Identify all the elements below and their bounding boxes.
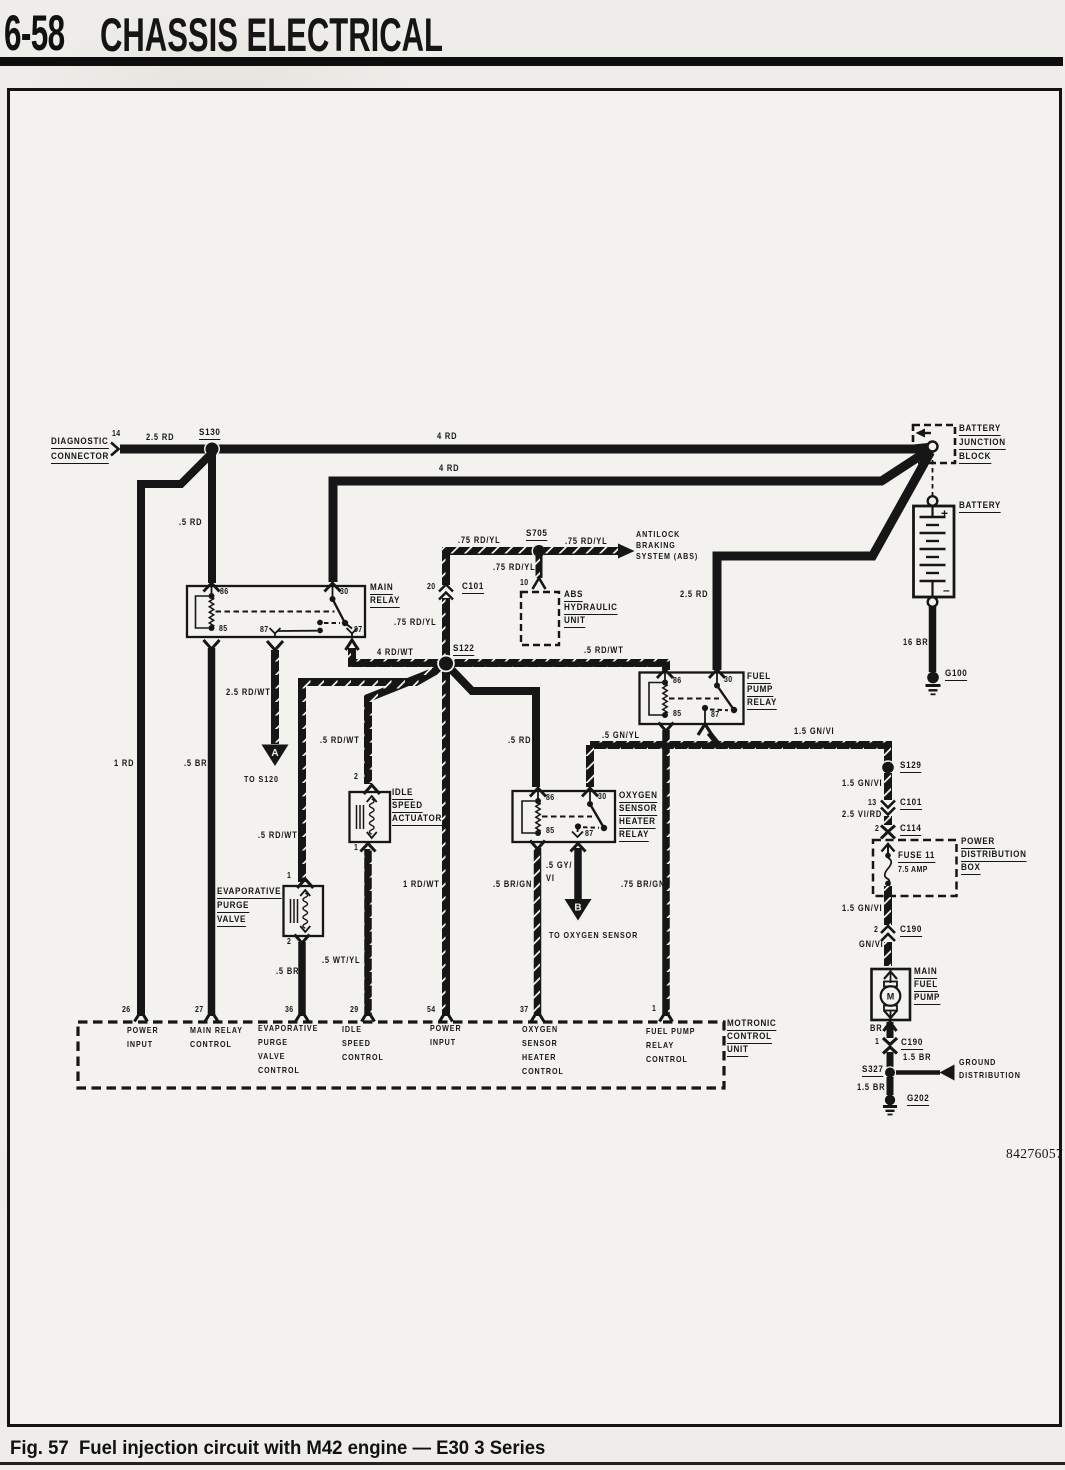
value .5 GN/YL [602,731,640,740]
value .5 RD/WT (to purge valve) [258,831,298,840]
wire .5 RD (S130 to main relay pin 86) [208,453,216,583]
heater relay pin 86 [546,794,555,802]
label main relay control line 2 [190,1040,232,1048]
page header title [100,7,443,62]
battery junction block arrow [916,429,926,438]
fork at Motronic pin 37 [531,1011,544,1022]
connector label C101 (pin 13) [900,798,922,810]
arrowhead at main relay pin 85 [204,640,220,649]
label evaporative purge valve control line 4 [258,1066,300,1074]
heater relay pin 30 [598,793,607,801]
purge valve pin 1 [287,872,291,880]
wire jog fuel pump relay 87 to GN/YL run [709,733,718,744]
label power input (pin 54) [430,1024,462,1032]
value .5 BR (purge valve) [276,967,299,976]
node label S130 [199,428,221,440]
fuse 11 entry arrow inside power distribution box [882,844,895,852]
wire .75 RD/YL (node S122 up through C101 pin 20 to S705 corner) [446,551,534,659]
value 2.5 RD/WT [226,688,271,697]
label evaporative purge valve control line 2 [258,1038,288,1046]
label idle speed control [342,1025,362,1033]
Motronic pin 26 [122,1006,131,1014]
label oxygen sensor heater relay line 4 [619,830,649,842]
label main relay control [190,1026,243,1034]
label battery junction block line 3 [959,452,991,464]
fork at Motronic pin 27 [205,1011,218,1022]
value .5 RD (to heater relay) [508,736,531,745]
fuel pump relay pin 30 [724,676,733,684]
fuse 11 element squiggle [885,858,892,885]
label antilock braking system [636,530,680,538]
bottom rule [0,1462,1065,1465]
wire .5 WT/YL (idle speed actuator pin 1 to Motronic pin 29) [364,849,372,1016]
value 1.5 GN/VI (S129-C101) [842,779,882,788]
node label S705 [526,529,548,541]
ground G100 symbol [927,672,939,684]
label ABS hydraulic unit line 2 [564,603,618,615]
label oxygen sensor heater control line 3 [522,1053,556,1061]
C190 pin 1 [875,1038,879,1046]
label power distribution box [961,837,995,849]
label evaporative purge valve [217,887,281,899]
label idle speed actuator [392,788,413,800]
value GN/VI [859,940,884,949]
label power input (pin 54) line 2 [430,1038,456,1046]
wire .75 RD/YL (S705 down to ABS hydraulic unit pin 10) [536,556,543,578]
label diagnostic connector [51,437,108,449]
Motronic pin 37 [520,1006,529,1014]
fork at Motronic pin 29 [362,1011,375,1022]
label oxygen sensor heater relay line 3 [619,817,656,829]
C114 pin 2 [875,825,879,833]
node S130 junction [204,441,220,457]
C101 pin 20 [427,583,436,591]
wire BR (C190 pin 1 to S327) [887,1052,894,1068]
value 2.5 RD [146,433,174,442]
node S122 junction [437,655,455,673]
dashed link battery junction to battery [932,452,934,496]
wire 2.5 RD/WT (main relay pin 87 to triangle A) [271,650,279,744]
value .5 RD/WT (to idle speed actuator) [320,736,360,745]
evaporative purge valve [284,886,324,936]
label evaporative purge valve line 2 [217,901,249,913]
value 4 RD (second feed) [439,464,459,473]
label battery junction block line 2 [959,438,1006,450]
label evaporative purge valve line 3 [217,915,246,927]
wire 4 RD/WT (main relay pin 87 to node S122) [352,648,441,663]
battery junction block terminal [928,442,938,452]
wire .5 RD/WT (S122 to idle speed actuator pin 2) [368,668,443,784]
value .5 GY/VI line 2 [546,874,555,883]
label power distribution box line 3 [961,863,981,875]
ABS hydraulic unit (dashed) [521,592,559,645]
value .5 BR (main relay 85) [184,759,207,768]
wire GN/VI (C190 to main fuel pump) [884,942,892,966]
main relay pin 85 [219,625,228,633]
fork under main fuel pump [884,1022,897,1031]
wire 16 BR (battery to ground G100) [929,607,937,672]
value .75 RD/YL (C101 to S122) [394,618,437,627]
fuse 11 lead in [887,846,889,853]
label antilock braking system line 3 [636,552,698,560]
value 1.5 GN/VI (run) [794,727,834,736]
label power input (pin 26) [127,1026,159,1034]
fork at Motronic pin 1 [660,1011,673,1022]
value .5 GY/VI [546,861,572,870]
triangle reference B to oxygen sensor [565,899,592,921]
arrowhead at fuel pump relay pin 85 [659,723,674,732]
label idle speed control line 2 [342,1039,371,1047]
connector C101 pin 13 symbol [881,801,895,808]
heater relay pin 87 [585,830,594,838]
battery [914,506,955,597]
value 2.5 RD [680,590,708,599]
label diagnostic connector line 2 [51,452,109,464]
wire .75 BR/GN (fuel pump relay pin 85 to Motronic pin 1) [662,730,670,1016]
fuse 11 bottom contact dot [885,881,891,887]
C101 pin 13 [868,799,877,807]
wire 1.5 BR (S327 to ground G202) [887,1077,894,1095]
battery negative terminal [928,597,938,607]
node label S327 [862,1065,884,1077]
label main fuel pump [914,967,937,979]
Motronic pin 29 [350,1006,359,1014]
label evaporative purge valve control line 3 [258,1052,285,1060]
arrowhead from ground distribution [940,1065,955,1081]
label main fuel pump line 2 [914,980,938,992]
wire .5 BR (main relay pin 85 to Motronic pin 27) [208,648,216,1016]
label oxygen sensor heater relay line 2 [619,804,657,816]
label oxygen sensor heater control [522,1025,558,1033]
label motronic control unit line 2 [727,1032,772,1044]
label motronic control unit line 3 [727,1045,749,1057]
fork at Motronic pin 54 [440,1011,453,1022]
fork at Motronic pin 36 [296,1011,309,1022]
heater relay pin 85 [546,827,555,835]
connector C101 pin 20 symbol [440,585,452,598]
node S705 junction [532,544,547,559]
value 1.5 GN/VI (fuse-C190) [842,904,882,913]
wire .5 RD (S122 to oxygen sensor heater relay pin 86) [449,667,537,788]
Motronic pin 36 [285,1006,294,1014]
wire 1.5 GN/VI (fuse 11 to connector C190 pin 2) [884,886,892,925]
fuel pump relay pin 86 [673,677,682,685]
label power input line 2 [127,1040,153,1048]
cup at idle speed actuator pin 1 [361,844,376,852]
value 1 RD/WT [403,880,440,889]
label to oxygen sensor [549,931,638,939]
wire .5 BR/GN (oxygen sensor heater relay pin 85 to Motronic pin 37) [534,848,542,1016]
ground label G202 [907,1094,929,1106]
connector label C190 (pin 2) [900,925,922,937]
ground G202 symbol [885,1095,895,1105]
fuse 11 contact dot [885,853,891,859]
value .75 RD/YL (top) [458,536,501,545]
wire BR (main fuel pump to connector C190 pin 1) [887,1022,894,1038]
label antilock braking system line 2 [636,541,676,549]
fork at Motronic pin 26 [135,1011,148,1022]
value .5 RD (S130 branch) [179,518,202,527]
value 4 RD/WT [377,648,414,657]
wire 4 RD second feed (battery junction block to main relay pin 30) [333,450,929,582]
fork under fuel pump relay pin 87 [698,724,712,735]
value 1.5 BR (to G202) [857,1083,885,1092]
node label S122 [453,644,475,656]
label battery [959,501,1001,513]
wire .5 RD/WT (S122 to evaporative purge valve pin 1) [302,666,444,882]
main relay pin 86 [220,588,229,596]
svg-text:+: + [941,507,948,521]
arrowhead at oxygen sensor heater relay pin 85 [530,841,545,850]
arrowhead at main relay pin 87 middle [267,641,283,650]
label to S120 [244,775,279,783]
connector C190 pin 1 symbol [883,1038,897,1045]
label fuel pump relay line 2 [747,685,773,697]
svg-text:B: B [574,903,581,914]
wire 2.5 RD / 4 RD main feed (diagnostic connector to battery junction block) [120,448,928,450]
value 1.5 BR (to ground distribution) [903,1053,931,1062]
Motronic pin 54 [427,1006,436,1014]
wire .5 BR (evaporative purge valve pin 2 to Motronic pin 36) [298,942,306,1016]
connector C114 pin 2 symbol [881,826,895,839]
label oxygen sensor heater relay [619,791,658,803]
label fuel pump relay line 3 [747,698,777,710]
label main relay line 2 [370,596,400,608]
node label S129 [900,761,922,773]
cup at oxygen sensor heater relay pin 87 [571,844,586,852]
figure caption [10,1437,545,1460]
svg-text:–: – [943,583,950,597]
label evaporative purge valve control [258,1024,318,1032]
battery positive terminal [928,496,938,506]
arrowhead at evaporative purge valve pin 2 [295,935,310,944]
idle speed actuator pin 2 [354,773,358,781]
label oxygen sensor heater control line 2 [522,1039,558,1047]
wire .5 RD/WT (S122 to fuel pump relay pin 86) [451,663,666,670]
wire .75 RD/YL (S705 to antilock braking system) [544,547,619,555]
fuel pump relay pin 87 [711,711,720,719]
value BR [870,1024,883,1033]
label ABS hydraulic unit [564,590,583,602]
connector label C101 (pin 20) [462,582,484,594]
battery junction block (dashed) [913,425,955,463]
wire 2.5 VI/RD (C101 to connector C114 pin 2) [884,816,892,825]
value 2.5 VI/RD [842,810,882,819]
svg-text:A: A [271,748,278,759]
value .75 RD/YL (to pin 10) [493,563,536,572]
main relay pin 30 [340,588,349,596]
label ground distribution [959,1058,996,1066]
label idle speed control line 3 [342,1053,384,1061]
wire 2.5 RD (battery junction block to fuel pump relay pin 30) [717,452,931,670]
main relay K1 [187,586,365,637]
triangle reference A to S120 [262,745,289,767]
value 16 BR [903,638,928,647]
main relay pin 87 middle [260,626,269,634]
node S327 junction [884,1066,896,1078]
label fuel pump relay control [646,1027,695,1035]
wire 1 RD (S130 to Motronic pin 26) [141,451,214,1016]
label ABS hydraulic unit line 3 [564,616,586,628]
connector fork pin 14 (diagnostic connector) [111,443,119,456]
wire 1 RD/WT (S122 to Motronic pin 54) [442,670,450,1016]
connector label C190 (pin 1) [901,1038,923,1050]
label motronic control unit [727,1019,776,1031]
label fuse 11 [898,851,935,863]
power distribution box (dashed) [873,840,957,896]
ABS pin 10 [520,579,529,587]
Motronic pin 27 [195,1006,204,1014]
label fuel pump relay control line 2 [646,1041,674,1049]
wire 1.5 GN/VI (S129 to connector C101 pin 13) [884,773,892,800]
Motronic control unit (dashed) [78,1022,724,1088]
fuel pump relay pin 85 [673,710,682,718]
header rule bar [0,57,1063,66]
value .75 RD/YL (to ABS) [565,537,608,546]
label power distribution box line 2 [961,850,1027,862]
purge valve pin 2 [287,938,291,946]
main fuel pump [872,969,911,1020]
wire 1.5 BR (S327 to ground distribution) [896,1070,940,1075]
fork under main relay pin 87 right [346,640,359,650]
label fuel pump relay control line 3 [646,1055,688,1063]
label idle speed actuator line 3 [392,814,442,826]
svg-text:M: M [887,992,895,1002]
label ground distribution line 2 [959,1071,1021,1079]
value .75 BR/GN [621,880,665,889]
label fuel pump relay [747,672,771,684]
label main relay [370,583,393,595]
main relay pin 87 right [354,626,363,634]
document number [1006,1147,1063,1161]
value .5 BR/GN [493,880,532,889]
wire .5 GY/VI (oxygen sensor heater relay pin 87 to triangle B) [574,848,582,899]
wire .5 GN/YL / 1.5 GN/VI run (to S129 branch) [590,745,888,762]
pin 14 label [112,430,121,438]
value 7.5 AMP [898,866,928,874]
ground label G100 [945,669,967,681]
fuel pump relay K2 [640,673,744,725]
node S129 junction [881,760,896,775]
value 4 RD (top feed) [437,432,457,441]
connector label C114 [900,824,922,836]
Motronic pin 1 [652,1005,656,1013]
value .5 WT/YL [322,956,360,965]
label main fuel pump line 3 [914,993,940,1005]
connector C190 pin 2 symbol [881,926,895,940]
label idle speed actuator line 2 [392,801,423,813]
oxygen sensor heater relay K3 [513,791,616,842]
C190 pin 2 [874,926,878,934]
idle speed actuator pin 1 [354,844,358,852]
fork at ABS hydraulic unit pin 10 [533,578,546,589]
value .5 RD/WT (to fuel pump relay) [584,646,624,655]
label battery junction block [959,424,1001,436]
wire .5 GN/YL (oxygen sensor heater relay pin 30 up to GN/YL run) [586,745,594,787]
arrowhead to antilock braking system [618,544,635,559]
idle speed actuator [350,792,391,842]
page header number [4,4,65,62]
value 1 RD [114,759,134,768]
label oxygen sensor heater control line 4 [522,1067,564,1075]
